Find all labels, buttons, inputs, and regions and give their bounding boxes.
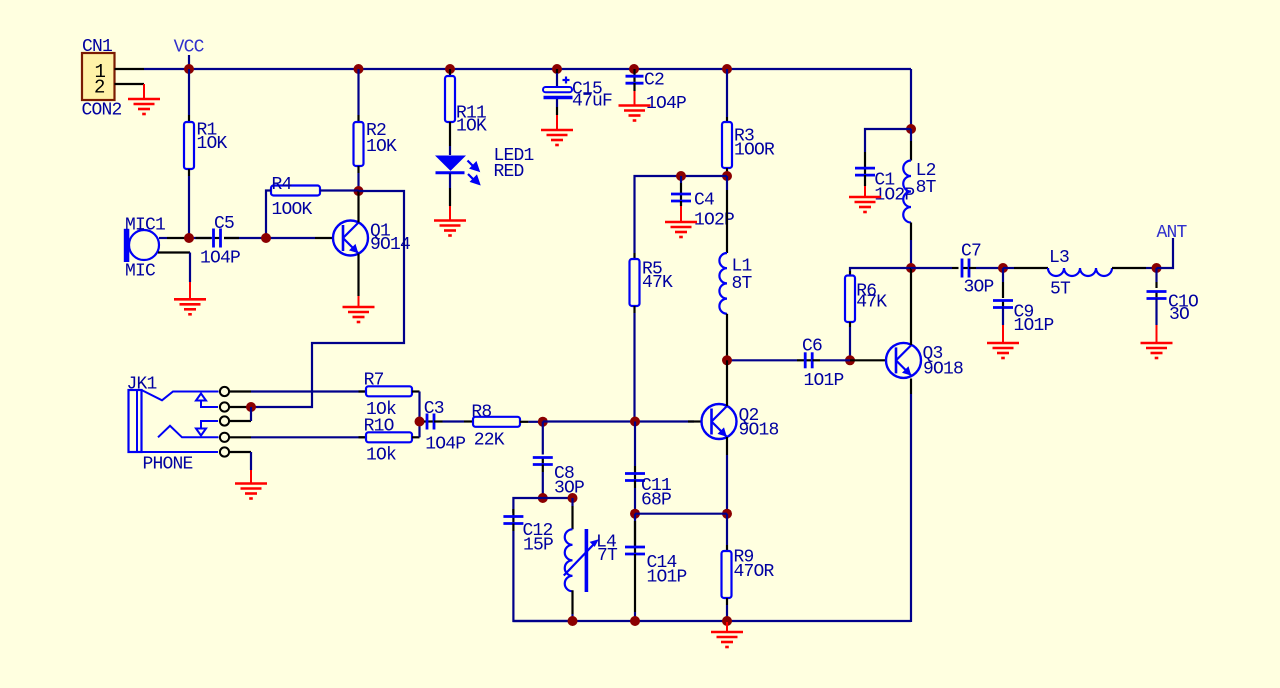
ground at LED1	[434, 221, 466, 236]
junction VCC rail / R1	[184, 64, 194, 74]
junction rail / R11	[445, 64, 455, 74]
svg-text:1OK: 1OK	[456, 117, 487, 137]
inductor L2	[910, 129, 912, 141]
svg-text:PHONE: PHONE	[143, 455, 193, 475]
svg-text:C4: C4	[694, 191, 714, 211]
pin C15 bottom	[556, 99, 558, 107]
wire C1 branch	[865, 129, 911, 152]
wire to Q2 base	[543, 420, 694, 422]
pin Q3 emitter	[910, 379, 912, 395]
junction C11 / C14 / Q2 emitter wire	[630, 509, 640, 519]
wire L3 right	[1112, 267, 1146, 269]
svg-text:C2: C2	[644, 70, 664, 90]
wire C12 top	[513, 498, 542, 513]
capacitor C9	[1002, 301, 1004, 308]
junction R2/R4/Q1 collector	[354, 186, 364, 196]
resistor R10	[366, 432, 412, 442]
svg-text:15P: 15P	[523, 536, 553, 556]
pin Q2 collector	[726, 360, 728, 406]
wire C4 row	[635, 176, 728, 253]
svg-text:C5: C5	[214, 214, 234, 234]
svg-text:8T: 8T	[916, 178, 937, 198]
transistor Q3 9018	[886, 343, 921, 378]
junction L4 top	[568, 493, 578, 503]
resistor R7	[366, 386, 412, 396]
resistor R8	[473, 417, 520, 427]
junction R6 / C6 / Q3 base	[845, 355, 855, 365]
wire C10 bottom	[1155, 299, 1157, 326]
svg-text:R1O: R1O	[364, 417, 394, 437]
junction rail / C2	[629, 64, 639, 74]
wire bottom rail	[513, 620, 911, 622]
wire jack pin4 to R10	[251, 436, 366, 438]
svg-text:8T: 8T	[732, 274, 753, 294]
junction rail / R9 / ground	[722, 616, 732, 626]
wire C6 left	[727, 359, 797, 361]
svg-text:1O1P: 1O1P	[804, 371, 844, 391]
svg-text:1Ok: 1Ok	[366, 446, 396, 466]
pin 2 of CN1	[115, 83, 145, 85]
svg-text:C7: C7	[961, 242, 981, 262]
junction L2 / C7 / R6 / Q3 collector	[906, 263, 916, 273]
svg-text:1O2P: 1O2P	[874, 186, 914, 206]
capacitor C5	[214, 237, 221, 239]
svg-text:R8: R8	[471, 403, 491, 423]
capacitor C2	[633, 69, 635, 76]
wire MIC1 to C5	[185, 237, 213, 239]
svg-text:VCC: VCC	[174, 38, 205, 58]
wire L4 top	[543, 497, 573, 499]
wire emitter row	[635, 513, 727, 515]
wire Q1 collector node to jack	[251, 191, 404, 407]
svg-text:CN1: CN1	[82, 37, 112, 57]
resistor R1	[188, 69, 190, 115]
wire C11 bottom	[634, 481, 636, 489]
wire C12 bottom	[512, 524, 514, 532]
capacitor C1	[864, 168, 866, 175]
wire R2 bottom to R4 node	[357, 166, 359, 173]
svg-text:JK1: JK1	[127, 375, 157, 395]
pin Q1 emitter	[357, 254, 359, 297]
ground at MIC1	[174, 299, 206, 314]
pin Q2 emitter	[726, 437, 728, 455]
ground at C4	[665, 222, 697, 237]
capacitor C4	[680, 176, 682, 183]
junction C1 / L2	[906, 124, 916, 134]
svg-text:5T: 5T	[1050, 280, 1071, 300]
pin jack 5 to ground	[229, 451, 251, 453]
wire C3 right	[434, 420, 443, 422]
pin LED1 cathode	[449, 188, 451, 206]
svg-text:68P: 68P	[641, 491, 671, 511]
capacitor C6	[805, 359, 812, 361]
ground bars CN1	[128, 99, 160, 114]
svg-text:9O18: 9O18	[923, 360, 963, 380]
resistor R4	[271, 186, 320, 196]
ground at CN1 pin 2	[143, 84, 145, 99]
junction C4	[676, 171, 686, 181]
wire C6 right	[813, 359, 821, 361]
junction rail / R2	[354, 64, 364, 74]
svg-text:1OK: 1OK	[366, 137, 397, 157]
svg-text:1O4P: 1O4P	[200, 248, 240, 268]
ground at C1	[849, 197, 881, 212]
resistor R11	[449, 69, 451, 76]
wire to ANT	[1157, 238, 1174, 268]
junction rail / L4	[568, 616, 578, 626]
pin 1 of CN1	[115, 68, 145, 70]
junction R3 / C4 / L1	[722, 171, 732, 181]
microphone MIC1	[129, 230, 159, 260]
resistor R3	[726, 69, 728, 117]
wire C14 bottom	[634, 554, 636, 612]
wire C9 bottom	[1002, 308, 1004, 326]
inductor L1	[726, 176, 728, 190]
svg-text:3OP: 3OP	[964, 278, 994, 298]
resistor R2	[357, 69, 359, 115]
ground at C10	[1141, 343, 1173, 358]
wire MIC1 bottom to ground	[189, 253, 191, 283]
svg-text:CON2: CON2	[82, 101, 122, 121]
junction R4 / C5-Q1 wire	[261, 233, 271, 243]
pin jack 4	[229, 436, 251, 438]
capacitor C15 electrolytic	[556, 69, 558, 73]
svg-text:C3: C3	[424, 399, 444, 419]
junction R8 / C8 / base wire	[538, 417, 548, 427]
svg-text:1OK: 1OK	[197, 134, 228, 154]
junction rail / C14	[630, 616, 640, 626]
ground at Q1 emitter	[343, 307, 375, 322]
capacitor C7	[962, 267, 969, 269]
junction jack pins 2/3	[246, 402, 256, 412]
resistor R9	[726, 514, 728, 545]
junction L1-Q2 / C6	[722, 355, 732, 365]
svg-text:MIC1: MIC1	[125, 215, 165, 235]
pin Q3 base	[850, 359, 887, 361]
svg-text:RED: RED	[494, 162, 524, 182]
svg-text:1OOK: 1OOK	[272, 200, 313, 220]
LED LED1 RED	[435, 156, 466, 171]
junction C7 / C9 / L3	[998, 263, 1008, 273]
svg-text:MIC: MIC	[125, 262, 156, 282]
pin Q1 base	[315, 237, 333, 239]
wire R9 bottom	[726, 598, 728, 605]
capacitor C3	[424, 420, 427, 422]
junction R7/R10/C3	[415, 417, 425, 427]
svg-text:2: 2	[94, 77, 105, 99]
svg-text:1O4P: 1O4P	[646, 94, 686, 114]
junction rail / R3	[722, 64, 732, 74]
svg-text:L3: L3	[1049, 248, 1069, 268]
svg-text:1O1P: 1O1P	[1014, 316, 1054, 336]
junction R5 / C11 / base wire	[630, 417, 640, 427]
ground at JK1	[235, 484, 267, 499]
phone jack JK1 body	[129, 390, 142, 452]
transistor Q2 9018	[702, 404, 737, 439]
inductor L3	[1048, 268, 1112, 276]
pin Q2 base	[688, 420, 702, 422]
pin jack 2	[229, 406, 251, 408]
wire jack pin1 to R7	[251, 390, 366, 392]
wire R5 bottom	[633, 306, 635, 313]
wire L2 bottom	[910, 223, 912, 241]
inductor L4 variable	[565, 529, 573, 591]
svg-text:1OOR: 1OOR	[734, 141, 775, 161]
wire L4 bottom	[571, 590, 573, 614]
wire R10 right	[412, 436, 420, 438]
jack ring contact	[158, 426, 219, 438]
pin MIC1 top	[159, 237, 167, 239]
wire L1 bottom to Q2 collector	[726, 314, 728, 361]
pin MIC1 bottom	[158, 251, 190, 253]
wire R7 right	[412, 390, 420, 392]
svg-text:47uF: 47uF	[572, 92, 612, 112]
svg-text:1O4P: 1O4P	[425, 435, 465, 455]
junction C8 / C12 / L4	[538, 493, 548, 503]
svg-text:7T: 7T	[597, 546, 618, 566]
svg-text:ANT: ANT	[1157, 223, 1188, 243]
wire R4 right	[320, 189, 359, 191]
pin jack 3 wire	[229, 420, 251, 422]
wire C9 top	[1002, 268, 1004, 282]
jack tip contact	[142, 390, 219, 400]
svg-text:C6: C6	[802, 336, 822, 356]
resistor R5	[633, 253, 635, 259]
svg-text:R7: R7	[364, 370, 384, 390]
pin R11 bottom	[449, 122, 451, 146]
capacitor C12	[512, 509, 514, 517]
wire main VCC rail	[144, 68, 911, 70]
wire C5 right to Q1 base	[224, 237, 315, 239]
wire LED1 bottom	[449, 173, 451, 188]
wire L3 left	[1003, 267, 1014, 269]
svg-text:1O1P: 1O1P	[647, 568, 687, 588]
svg-text:R4: R4	[272, 175, 292, 195]
svg-text:22K: 22K	[474, 431, 505, 451]
capacitor C8	[542, 422, 544, 455]
ground at C2	[619, 106, 651, 121]
wire Q3 emitter down to bottom rail	[910, 394, 912, 622]
svg-text:47OR: 47OR	[734, 562, 775, 582]
wire R4 left	[266, 191, 271, 239]
junction rail / C15	[552, 64, 562, 74]
junction R1 / mic wire	[184, 233, 194, 243]
capacitor C10	[1155, 268, 1157, 282]
jack tip switch arrow	[196, 394, 206, 401]
svg-text:9O18: 9O18	[739, 421, 779, 441]
pin Q3 collector	[910, 268, 912, 345]
jack sleeve contact	[129, 451, 219, 453]
transistor Q1 9014	[333, 221, 368, 256]
wire rail right drop	[910, 69, 912, 129]
wire C7 right	[969, 267, 976, 269]
capacitor C11	[634, 422, 636, 467]
wire R6 bottom	[849, 322, 851, 327]
wire R11 to LED1	[449, 146, 451, 155]
jack ring switch arrow	[196, 429, 206, 436]
wire R8 right	[520, 421, 528, 423]
ground bars bottom	[711, 632, 743, 647]
jack pin circles	[220, 387, 229, 396]
svg-text:3O: 3O	[1169, 305, 1189, 325]
wire C8 bottom	[542, 465, 544, 473]
resistor R6	[845, 276, 855, 323]
capacitor C14	[634, 514, 636, 521]
pin R3 bottom	[726, 168, 728, 176]
svg-text:47K: 47K	[856, 292, 887, 312]
wire C7 left	[911, 267, 952, 269]
pin Q1 collector	[357, 191, 359, 223]
ground at C15	[541, 130, 573, 145]
wire R1 bottom	[188, 169, 190, 176]
ground at bottom rail	[726, 622, 728, 632]
arrow of variable inductor L4	[564, 545, 594, 576]
wire VCC stub	[188, 55, 190, 69]
wire R6 top	[850, 268, 911, 271]
junction Q2 emitter / R9 / C14 wire	[722, 509, 732, 519]
wire Q2 emitter down	[726, 455, 728, 514]
pin jack 1	[229, 390, 251, 392]
junction L3 / ANT / C10	[1152, 263, 1162, 273]
ground at C9	[987, 343, 1019, 358]
svg-text:47K: 47K	[642, 273, 673, 293]
connector CN1 (CON2)	[82, 53, 115, 100]
